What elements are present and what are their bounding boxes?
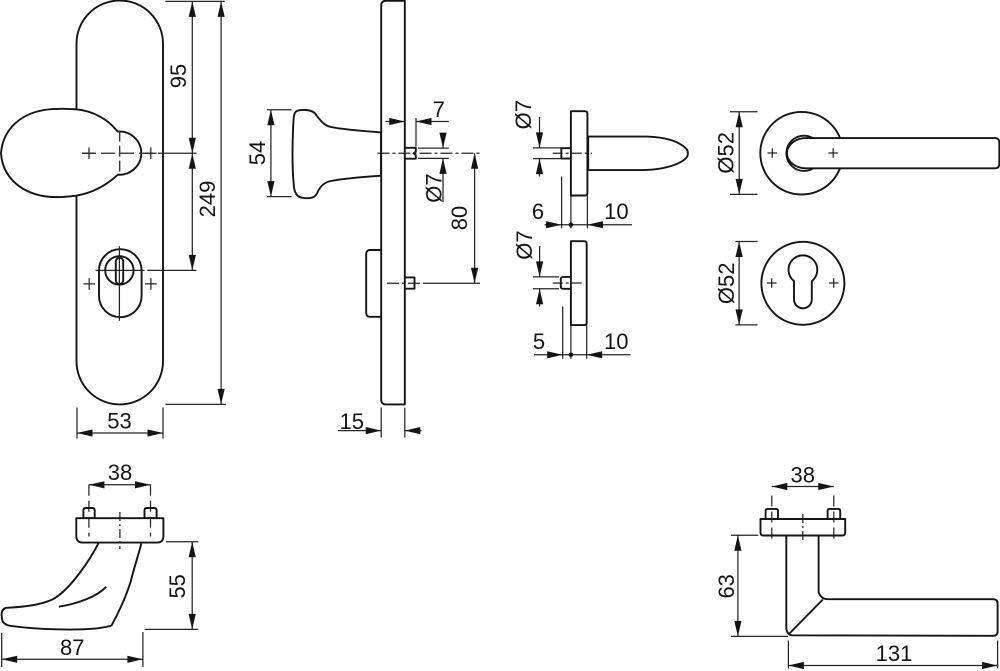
svg-text:Ø7: Ø7 [512,230,537,259]
svg-text:53: 53 [107,409,131,434]
svg-text:10: 10 [604,329,628,354]
svg-text:7: 7 [433,97,445,122]
svg-text:54: 54 [245,141,270,165]
svg-text:131: 131 [876,641,913,666]
svg-text:Ø52: Ø52 [714,132,739,174]
svg-text:95: 95 [166,64,191,88]
svg-text:6: 6 [532,199,544,224]
svg-text:38: 38 [108,460,132,485]
svg-text:80: 80 [447,206,472,230]
svg-text:55: 55 [165,574,190,598]
svg-text:63: 63 [714,574,739,598]
svg-text:15: 15 [340,409,364,434]
svg-text:Ø7: Ø7 [421,173,446,202]
svg-text:87: 87 [60,635,84,660]
svg-text:Ø7: Ø7 [511,100,536,129]
svg-text:Ø52: Ø52 [714,263,739,305]
svg-text:38: 38 [791,463,815,488]
svg-text:5: 5 [533,329,545,354]
svg-text:249: 249 [195,181,220,218]
svg-text:10: 10 [604,199,628,224]
